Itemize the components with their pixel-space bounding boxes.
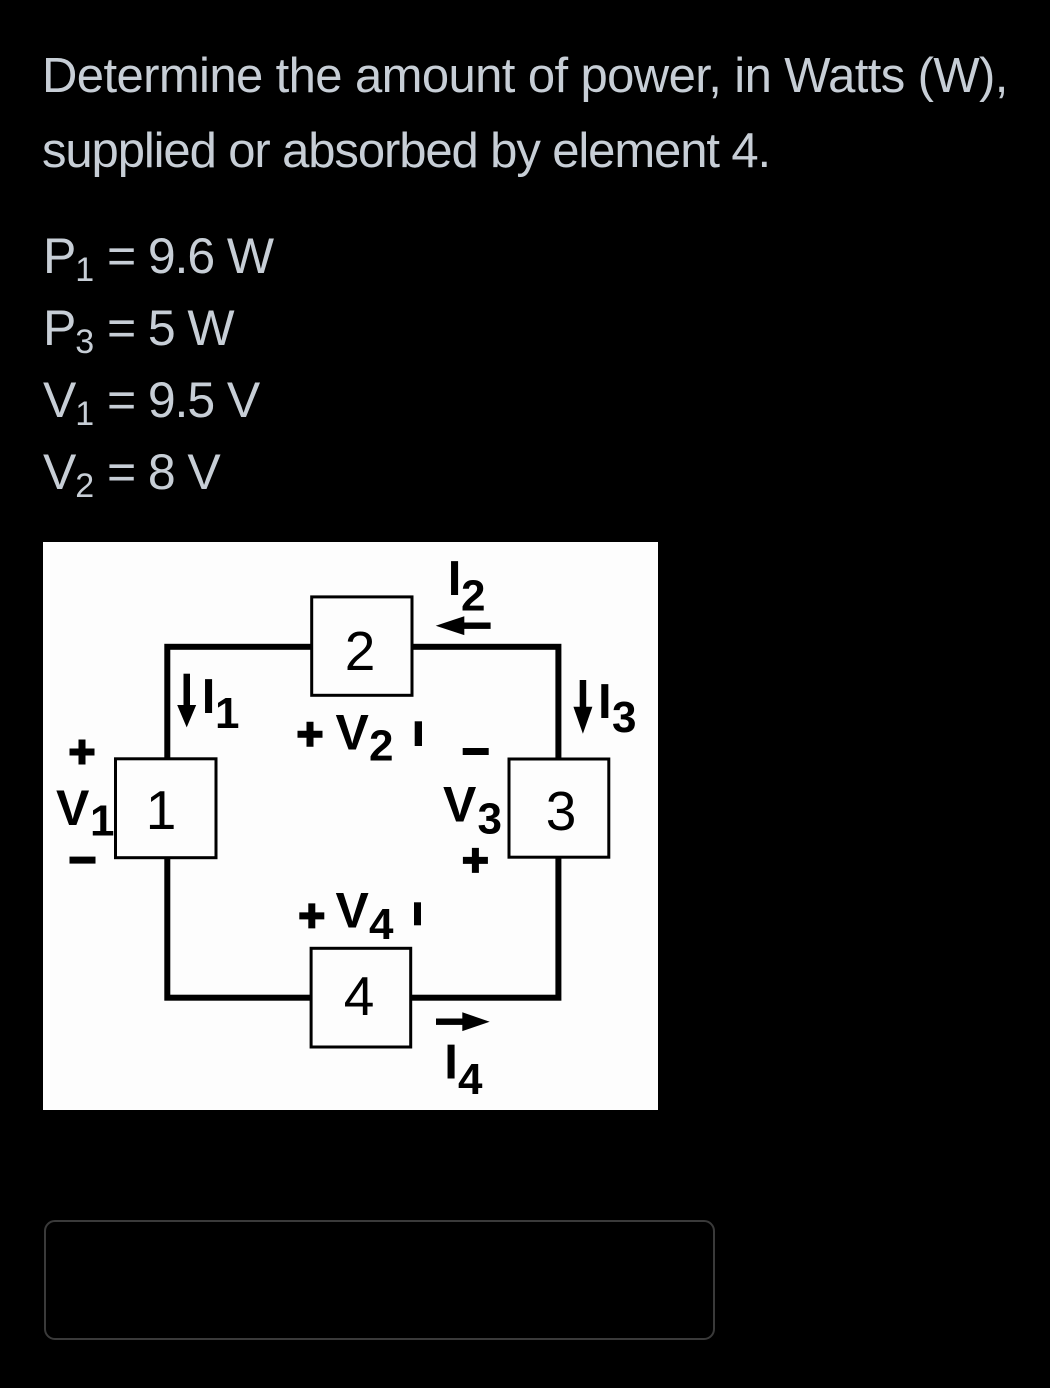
voltage label V4 plus — [299, 903, 324, 928]
svg-text:4: 4 — [458, 1055, 483, 1104]
svg-text:V: V — [56, 780, 90, 836]
voltage label V3 plus — [463, 848, 488, 873]
svg-text:V: V — [336, 704, 370, 760]
voltage label V4 tick — [414, 902, 421, 925]
current arrow I4 — [436, 1012, 490, 1031]
svg-text:2: 2 — [461, 572, 485, 621]
svg-text:2: 2 — [345, 620, 376, 682]
current label I2 — [448, 552, 486, 621]
svg-text:1: 1 — [215, 689, 239, 738]
voltage label V2 tick — [415, 721, 422, 746]
svg-text:V: V — [336, 883, 370, 939]
svg-text:3: 3 — [612, 693, 636, 742]
svg-text:1: 1 — [90, 796, 114, 845]
voltage label V2 — [336, 704, 394, 770]
voltage label V1 plus — [70, 740, 95, 765]
svg-text:4: 4 — [369, 900, 394, 949]
svg-text:I: I — [444, 1036, 458, 1090]
voltage label V3 — [443, 777, 502, 844]
svg-text:I: I — [202, 670, 216, 724]
current arrow I3 — [573, 680, 592, 734]
element box 1 — [116, 759, 217, 858]
voltage label V2 plus — [298, 722, 323, 747]
svg-text:I: I — [598, 675, 612, 729]
svg-text:V: V — [443, 777, 477, 833]
element box 3 — [509, 759, 609, 857]
current label I3 — [598, 675, 636, 742]
svg-text:2: 2 — [369, 722, 393, 771]
voltage label V4 — [336, 883, 395, 949]
svg-text:3: 3 — [546, 780, 577, 842]
current label I4 — [444, 1036, 483, 1104]
wire — [167, 647, 558, 998]
voltage label V1 minus — [70, 857, 96, 864]
current arrow I2 — [436, 616, 491, 635]
element box 2 — [312, 597, 412, 695]
svg-text:1: 1 — [146, 779, 177, 841]
svg-text:3: 3 — [478, 794, 502, 843]
svg-text:I: I — [448, 552, 462, 606]
voltage label V3 minus — [463, 748, 489, 755]
current arrow I1 — [177, 674, 196, 728]
current label I1 — [202, 670, 240, 738]
element box 4 — [311, 948, 411, 1047]
voltage label V1 — [56, 780, 114, 845]
svg-text:4: 4 — [344, 965, 375, 1027]
